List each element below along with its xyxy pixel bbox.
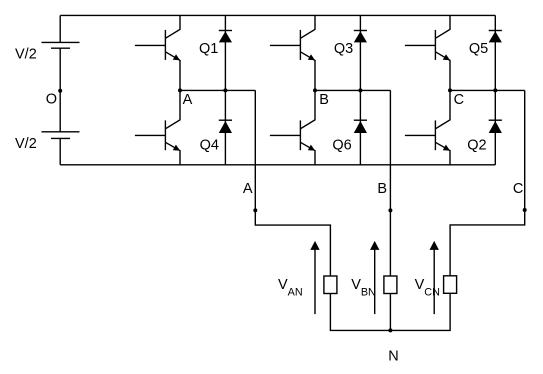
transistor Q4 emitter lead (165, 142, 180, 165)
transistor Q2 emitter lead (435, 142, 450, 165)
V_CN arrow head (430, 241, 439, 250)
transistor Q4 collector lead (165, 90, 180, 128)
transistor Q5 base bar (434, 30, 436, 60)
svg-text:V/2: V/2 (15, 46, 37, 62)
transistor Q6 base lead (270, 134, 301, 136)
transistor Q2 base bar (434, 120, 436, 150)
transistor Q2 base lead (405, 134, 436, 136)
svg-text:B: B (377, 181, 387, 197)
diode Q3 cathode bar (354, 30, 367, 32)
wire phase B node line (315, 89, 390, 91)
wire phase C output (450, 90, 525, 275)
diode Q1 lead (224, 15, 226, 90)
transistor Q1 emitter lead (165, 52, 180, 91)
node A junction (178, 88, 182, 92)
svg-text:VBN: VBN (351, 277, 376, 299)
transistor Q1 emitter arrow (173, 54, 180, 60)
wire phase A output (255, 90, 330, 276)
V_CN arrow line (433, 249, 435, 315)
diode Q3 triangle (354, 31, 367, 42)
wire top DC bus (60, 14, 495, 16)
V_BN arrow head (370, 241, 379, 250)
node O junction (58, 89, 62, 93)
transistor Q2 collector lead (435, 90, 450, 128)
transistor Q3 emitter lead (300, 52, 315, 91)
resistor phase B load (384, 276, 397, 294)
node A diode junction (223, 88, 227, 92)
battery V/2 upper positive plate (42, 41, 80, 43)
wire phase C node line (450, 89, 525, 91)
svg-text:Q6: Q6 (332, 137, 351, 153)
node B diode junction (358, 88, 362, 92)
transistor Q2 emitter arrow (443, 145, 450, 151)
transistor Q3 collector lead (300, 15, 315, 38)
transistor Q5 base lead (405, 44, 436, 46)
transistor Q5 emitter lead (435, 52, 450, 91)
transistor Q4 base bar (164, 120, 166, 150)
diode Q6 triangle (354, 121, 367, 133)
diode Q3 lead (359, 15, 361, 90)
node N junction (388, 328, 392, 332)
svg-text:B: B (319, 92, 329, 108)
transistor Q1 base lead (135, 44, 166, 46)
transistor Q3 base lead (270, 44, 301, 46)
terminal C dot (523, 208, 527, 212)
V_AN arrow head (310, 241, 319, 250)
transistor Q5 emitter arrow (443, 54, 450, 60)
transistor Q6 emitter lead (300, 142, 315, 165)
svg-text:C: C (454, 92, 464, 108)
V_AN arrow line (314, 249, 316, 315)
V_BN arrow line (374, 249, 376, 315)
transistor Q6 collector lead (300, 90, 315, 128)
svg-text:Q2: Q2 (467, 137, 486, 153)
wire phase B output (389, 90, 391, 330)
svg-text:Q4: Q4 (200, 137, 219, 153)
svg-text:VCN: VCN (415, 277, 440, 299)
wire phase A node line (180, 89, 255, 91)
transistor Q6 base bar (299, 120, 301, 150)
diode Q5 cathode bar (489, 30, 502, 32)
svg-text:O: O (46, 92, 57, 108)
wire battery stack bottom (59, 138, 61, 164)
svg-text:C: C (513, 181, 523, 197)
battery V/2 upper negative plate (51, 47, 70, 49)
resistor phase C load (444, 276, 457, 294)
battery V/2 lower positive plate (42, 131, 80, 133)
transistor Q3 emitter arrow (308, 54, 315, 60)
wire neutral bus N (330, 293, 450, 330)
terminal A dot (253, 208, 257, 212)
resistor phase A load (324, 276, 337, 294)
transistor Q4 emitter arrow (173, 145, 180, 151)
diode Q2 lead (494, 90, 496, 164)
diode Q2 triangle (489, 121, 502, 133)
transistor Q1 collector lead (165, 15, 180, 38)
diode Q4 cathode bar (219, 119, 232, 121)
svg-text:A: A (243, 181, 253, 197)
diode Q1 cathode bar (219, 30, 232, 32)
wire battery stack top (59, 15, 61, 42)
wire battery stack middle (59, 48, 61, 132)
diode Q5 triangle (489, 31, 502, 42)
transistor Q5 collector lead (435, 15, 450, 38)
svg-text:VAN: VAN (278, 277, 303, 299)
svg-text:Q1: Q1 (199, 41, 218, 57)
svg-text:A: A (183, 92, 193, 108)
svg-text:Q3: Q3 (334, 41, 353, 57)
svg-text:N: N (388, 348, 398, 364)
transistor Q4 base lead (135, 134, 166, 136)
diode Q2 cathode bar (489, 119, 502, 121)
node C junction (448, 88, 452, 92)
transistor Q3 base bar (299, 30, 301, 60)
transistor Q1 base bar (164, 30, 166, 60)
terminal B dot (388, 208, 392, 212)
diode Q5 lead (494, 15, 496, 90)
node C diode junction (493, 88, 497, 92)
diode Q1 triangle (219, 31, 232, 42)
wire bottom DC bus (60, 164, 495, 166)
diode Q6 lead (359, 90, 361, 164)
transistor Q6 emitter arrow (308, 145, 315, 151)
diode Q6 cathode bar (354, 119, 367, 121)
svg-text:V/2: V/2 (15, 136, 37, 152)
diode Q4 lead (224, 90, 226, 164)
battery V/2 lower negative plate (51, 137, 70, 139)
diode Q4 triangle (219, 121, 232, 133)
node B junction (313, 88, 317, 92)
svg-text:Q5: Q5 (469, 41, 488, 57)
